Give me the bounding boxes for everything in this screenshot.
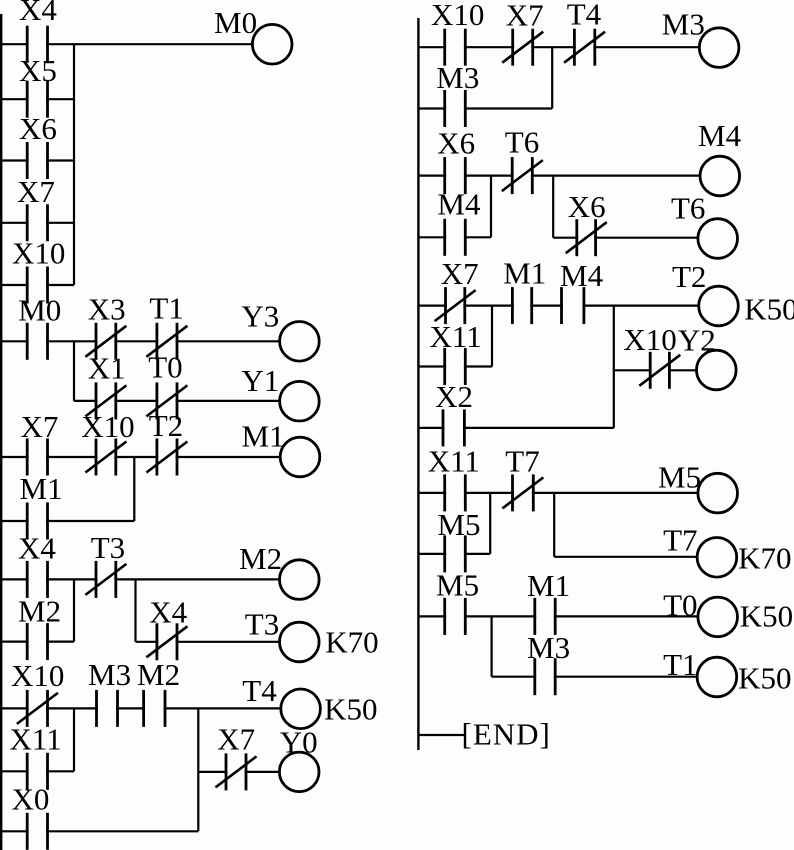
contact X7 (NO): [27, 204, 47, 241]
coil T2: [699, 286, 739, 326]
svg-text:T0: T0: [148, 350, 182, 385]
svg-text:X4: X4: [19, 0, 57, 27]
contact X11 (NO): [445, 348, 466, 385]
contact X10 (NC): [639, 352, 680, 389]
left power rail: [0, 14, 2, 850]
svg-text:M3: M3: [436, 60, 479, 95]
wire rung5 main to coil T4: [0, 707, 281, 709]
svg-text:X5: X5: [19, 53, 57, 88]
svg-text:K70: K70: [325, 625, 378, 660]
svg-text:T7: T7: [663, 523, 697, 558]
svg-text:X10: X10: [11, 658, 64, 693]
contact T3 (NC): [85, 561, 126, 598]
svg-text:X7: X7: [441, 256, 479, 291]
contact X10 (NO): [27, 267, 47, 304]
wire X6 parallel row: [0, 159, 74, 161]
svg-text:Y2: Y2: [678, 322, 716, 357]
svg-text:M2: M2: [137, 657, 180, 692]
coil T1: [697, 657, 737, 697]
wire M2 seal-in row: [0, 640, 74, 642]
contact T7 (NC): [502, 474, 543, 511]
svg-text:X6: X6: [568, 189, 606, 224]
contact M5 (NO): [445, 598, 466, 635]
wire M3 seal-in row: [418, 107, 552, 109]
coil T6: [698, 219, 738, 259]
svg-text:M4: M4: [560, 258, 604, 293]
svg-text:T3: T3: [245, 607, 279, 642]
svg-text:Y3: Y3: [241, 299, 279, 334]
wire right rung4 main to coil M5: [418, 492, 698, 494]
wire X10 parallel row: [0, 284, 74, 286]
svg-text:X10: X10: [12, 236, 65, 271]
svg-text:M5: M5: [658, 460, 701, 495]
contact T6 (NC): [502, 157, 543, 194]
svg-text:K50: K50: [324, 691, 377, 726]
wire X7 parallel row: [0, 222, 74, 224]
contact M3 (NO): [97, 690, 118, 727]
svg-text:T6: T6: [671, 190, 705, 225]
contact T4 (NC): [564, 29, 605, 66]
coil T3: [280, 622, 320, 662]
wire rung4 main to coil M2: [0, 578, 279, 580]
svg-text:Y0: Y0: [280, 724, 318, 759]
svg-text:K50: K50: [738, 660, 791, 695]
svg-text:X11: X11: [430, 319, 482, 354]
wire junction M5 seal-in: [489, 493, 491, 554]
contact M3 (NO): [445, 90, 466, 127]
contact T0 (NC): [146, 382, 187, 419]
contact X4 (NC): [146, 623, 187, 660]
svg-text:X6: X6: [437, 125, 475, 160]
svg-text:T2: T2: [149, 408, 183, 443]
wire M1 seal-in row: [0, 520, 134, 522]
contact T2 (NC): [146, 439, 187, 476]
coil M5: [698, 473, 738, 513]
svg-text:T4: T4: [242, 673, 277, 708]
svg-text:X4: X4: [149, 595, 187, 630]
svg-text:X4: X4: [18, 531, 56, 566]
wire junction T6 coil branch: [552, 176, 554, 238]
contact X4 (NO): [27, 561, 47, 598]
coil Y0: [279, 752, 319, 792]
contact T1 (NC): [146, 323, 187, 360]
contact M1 (NO): [535, 598, 555, 635]
wire X11 parallel row: [0, 770, 74, 772]
contact X3 (NC): [85, 323, 126, 360]
svg-text:M2: M2: [239, 541, 282, 576]
svg-text:M5: M5: [437, 507, 480, 542]
wire X6 NC row to coil T6: [553, 237, 698, 239]
wire X10 NC row to coil Y2: [614, 369, 697, 371]
coil M2: [280, 560, 320, 600]
contact X2 (NO): [443, 409, 464, 446]
svg-text:M1: M1: [503, 256, 546, 291]
contact M4 (NO): [445, 219, 466, 256]
wire junction rung2 branch: [73, 341, 75, 401]
wire junction rung3 output node: [613, 306, 615, 428]
wire END rung: [418, 734, 464, 736]
coil M1: [280, 437, 320, 477]
svg-text:T4: T4: [567, 0, 602, 31]
contact M2 (NO): [27, 623, 47, 660]
wire X1 T0 branch row to coil Y1: [74, 400, 280, 402]
contact M0 (NO): [27, 323, 47, 360]
svg-text:X3: X3: [88, 292, 126, 327]
coil T7: [697, 538, 737, 578]
coil M4: [700, 156, 740, 196]
svg-text:X10: X10: [81, 409, 134, 444]
wire X4 NC row to coil T3: [136, 641, 280, 643]
svg-text:X6: X6: [19, 111, 57, 146]
wire M5 seal-in row: [418, 553, 490, 555]
svg-text:Y1: Y1: [241, 363, 279, 398]
svg-text:X10: X10: [623, 322, 676, 357]
wire X7 NC row to coil Y0: [198, 771, 279, 773]
wire junction M3 seal-in: [551, 47, 553, 108]
svg-text:X0: X0: [12, 782, 50, 817]
wire right rung5 main to coil T0: [418, 615, 697, 617]
coil M3: [699, 28, 739, 68]
contact X0 (NO): [27, 813, 47, 850]
wire right rung3 main to coil T2: [418, 305, 698, 307]
svg-text:X7: X7: [217, 722, 255, 757]
svg-text:X7: X7: [17, 174, 55, 209]
wire junction rung5 output node: [197, 708, 199, 831]
coil T0: [698, 597, 738, 637]
svg-text:M0: M0: [18, 293, 61, 328]
wire rung1 main to coil M0: [0, 43, 252, 45]
svg-text:T0: T0: [663, 587, 697, 622]
svg-text:M5: M5: [436, 567, 479, 602]
wire junction M2 seal-in: [73, 579, 75, 641]
wire junction M1 seal-in: [133, 457, 135, 521]
contact X7 (NC): [435, 287, 476, 324]
svg-text:T6: T6: [505, 125, 539, 160]
contact M4 (NO): [562, 287, 584, 324]
svg-text:X10: X10: [431, 0, 484, 32]
contact X7 (NC): [216, 753, 257, 790]
wire junction T7 coil branch: [553, 493, 555, 557]
svg-text:X7: X7: [506, 0, 544, 32]
contact M1 (NO): [27, 503, 47, 540]
wire junction X11 parallel: [73, 708, 75, 771]
contact X7 (NC): [502, 29, 543, 66]
coil Y2: [697, 350, 737, 390]
svg-text:M1: M1: [20, 471, 63, 506]
contact X10 (NO): [445, 29, 466, 66]
svg-text:K50: K50: [744, 292, 794, 327]
svg-text:K70: K70: [738, 540, 791, 575]
coil Y3: [280, 322, 320, 362]
wire junction T3 coil branch: [134, 579, 136, 641]
svg-text:X11: X11: [10, 722, 62, 757]
svg-text:M3: M3: [88, 657, 131, 692]
wire branch row to coil T7: [554, 556, 697, 558]
coil M0: [252, 24, 292, 64]
wire junction X11 parallel: [491, 306, 493, 367]
svg-text:T1: T1: [149, 291, 183, 326]
svg-text:M3: M3: [662, 6, 705, 41]
right power rail: [417, 18, 419, 750]
svg-text:M4: M4: [698, 118, 742, 153]
contact M3 (NO): [535, 658, 555, 695]
wire junction M4 seal-in: [490, 176, 492, 238]
contact M1 (NO): [512, 287, 531, 324]
svg-text:X11: X11: [428, 443, 480, 478]
svg-text:M1: M1: [242, 419, 285, 454]
contact X10 (NC): [85, 439, 126, 476]
svg-text:T2: T2: [672, 259, 706, 294]
wire rung3 main to coil M1: [0, 456, 280, 458]
wire junction rung1 parallel branch: [73, 44, 75, 285]
contact M2 (NO): [144, 690, 165, 727]
wire M3 branch row to coil T1: [492, 676, 697, 678]
wire X0 parallel row: [0, 830, 198, 832]
wire right rung2 main to coil M4: [418, 175, 700, 177]
wire junction T1 coil branch: [491, 616, 493, 676]
svg-text:M3: M3: [527, 630, 570, 665]
contact X10 (NC): [17, 690, 58, 727]
contact X6 (NO): [445, 157, 466, 194]
contact X5 (NO): [27, 81, 47, 118]
contact X6 (NC): [566, 219, 607, 256]
svg-text:M0: M0: [214, 5, 257, 40]
wire rung2 main to coil Y3: [0, 340, 280, 342]
svg-text:X2: X2: [435, 379, 473, 414]
contact X6 (NO): [27, 142, 47, 179]
wire right rung1 main to coil M3: [418, 46, 699, 48]
svg-text:[END]: [END]: [462, 717, 551, 752]
svg-text:T7: T7: [505, 443, 539, 478]
wire X2 parallel row: [418, 427, 613, 429]
coil T4: [281, 689, 321, 729]
svg-text:X1: X1: [88, 351, 126, 386]
wire X5 parallel row: [0, 98, 74, 100]
wire M4 seal-in row: [418, 236, 491, 238]
svg-text:M2: M2: [18, 594, 61, 629]
svg-text:M1: M1: [527, 568, 570, 603]
coil Y1: [280, 381, 320, 421]
svg-text:X7: X7: [21, 409, 59, 444]
contact X1 (NC): [85, 382, 126, 419]
contact X11 (NO): [27, 753, 47, 790]
contact X4 (NO): [27, 26, 47, 63]
svg-text:M4: M4: [437, 187, 481, 222]
wire X11 parallel row: [418, 365, 492, 367]
contact X7 (NO): [27, 439, 47, 476]
contact M5 (NO): [445, 535, 466, 572]
svg-text:K50: K50: [740, 598, 793, 633]
svg-text:T1: T1: [663, 647, 697, 682]
contact X11 (NO): [445, 474, 466, 511]
svg-text:T3: T3: [91, 530, 125, 565]
